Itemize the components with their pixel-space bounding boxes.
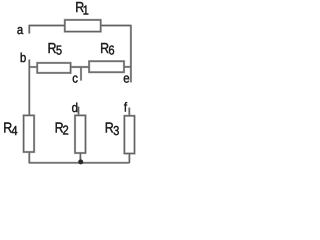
soft under-stroke pass of all wires and resistor bodies — [24, 20, 135, 163]
svg-text:e: e — [123, 70, 129, 85]
main stroke pass of all wires and resistor bodies — [24, 20, 135, 163]
svg-text:6: 6 — [108, 43, 114, 58]
svg-text:a: a — [17, 22, 24, 37]
svg-text:f: f — [124, 99, 128, 114]
svg-text:3: 3 — [113, 123, 119, 138]
svg-text:5: 5 — [56, 43, 62, 58]
svg-text:b: b — [20, 50, 26, 65]
svg-text:2: 2 — [63, 123, 69, 138]
svg-text:4: 4 — [11, 123, 17, 138]
svg-text:c: c — [72, 70, 78, 85]
svg-text:d: d — [72, 100, 78, 115]
junction dot — [78, 159, 83, 164]
svg-text:1: 1 — [83, 2, 89, 17]
